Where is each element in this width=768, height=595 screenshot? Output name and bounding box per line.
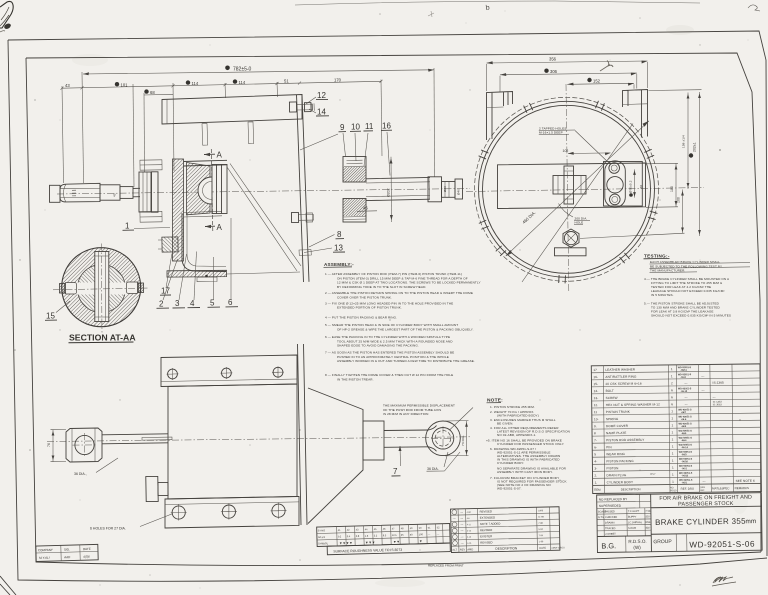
svg-text:REVISED: REVISED bbox=[480, 528, 492, 532]
rod end block bbox=[428, 177, 442, 202]
body J wall bbox=[182, 213, 226, 272]
bolt bottom bbox=[291, 212, 298, 222]
dim 76 bbox=[52, 430, 54, 462]
svg-text:73 DIA.: 73 DIA. bbox=[461, 435, 465, 446]
dome cover cone bbox=[308, 388, 363, 524]
cover end rect bbox=[363, 421, 384, 460]
svg-text:16-: 16- bbox=[593, 375, 598, 379]
svg-text:ALT: ALT bbox=[452, 548, 457, 552]
svg-text:IN THE PISTON TREAR.: IN THE PISTON TREAR. bbox=[337, 377, 374, 381]
dim 306 bbox=[500, 73, 637, 75]
specks bbox=[379, 13, 381, 15]
obround flange pocket bbox=[604, 162, 643, 207]
svg-text:BRAKE CYLINDER 355: BRAKE CYLINDER 355 bbox=[655, 517, 746, 527]
svg-text:REPLACED FROM PRINT: REPLACED FROM PRINT bbox=[428, 564, 464, 568]
svg-text:11: 11 bbox=[365, 122, 374, 131]
svg-text:AMD: AMD bbox=[467, 547, 473, 551]
centerline bottom view bbox=[47, 437, 470, 442]
svg-text:17: 17 bbox=[161, 287, 170, 296]
svg-text:COVER OVER THE PISTON TRUNK.: COVER OVER THE PISTON TRUNK. bbox=[337, 295, 392, 299]
bottom bar holes bbox=[172, 506, 185, 519]
svg-text:1008: 1008 bbox=[538, 510, 544, 512]
band across bbox=[498, 163, 646, 209]
svg-text:mm: mm bbox=[745, 518, 756, 525]
svg-text:ITEM: ITEM bbox=[594, 488, 602, 492]
svg-text:(W): (W) bbox=[633, 545, 641, 550]
svg-text:8: 8 bbox=[594, 431, 596, 435]
diagonal 460 DIA bbox=[506, 121, 649, 256]
svg-text:CHECKED: CHECKED bbox=[605, 516, 617, 519]
svg-text:36 DIA.: 36 DIA. bbox=[427, 467, 439, 471]
svg-text:-06/1: -06/1 bbox=[682, 482, 688, 484]
svg-text:114: 114 bbox=[192, 81, 199, 86]
body circle outer bbox=[479, 101, 655, 277]
svg-text:M.Y.ALI: M.Y.ALI bbox=[39, 556, 50, 560]
section centerlines bbox=[53, 288, 150, 290]
svg-text:1: 1 bbox=[671, 416, 673, 420]
svg-text:5: 5 bbox=[594, 452, 596, 456]
svg-text:B.G.: B.G. bbox=[601, 541, 616, 550]
svg-text:SUPERSEDED: SUPERSEDED bbox=[599, 504, 622, 508]
svg-text:-06/12: -06/12 bbox=[682, 475, 689, 477]
hanging tab left bbox=[202, 124, 208, 146]
svg-text:9.: 9. bbox=[594, 424, 597, 428]
svg-text:NOTE 7 ADDED: NOTE 7 ADDED bbox=[480, 522, 501, 526]
dim 356 bbox=[487, 61, 648, 63]
svg-text:15-: 15- bbox=[593, 382, 598, 386]
svg-text:102: 102 bbox=[563, 149, 569, 153]
outer dashed circle bbox=[475, 97, 659, 281]
piston trunk tube bbox=[366, 177, 430, 200]
hub bbox=[553, 176, 586, 195]
dim row 43/101/114/114/51/170 bbox=[62, 81, 381, 88]
bracket right bbox=[623, 90, 648, 138]
svg-text:4 — PUT THE PISTON PACKING & B: 4 — PUT THE PISTON PACKING & BEAR RING. bbox=[325, 316, 397, 320]
svg-text:12: 12 bbox=[317, 91, 326, 100]
svg-text:-06-6: -06-6 bbox=[681, 419, 687, 421]
piston rod bbox=[102, 434, 168, 444]
cylinder bottom wall bbox=[184, 211, 223, 217]
svg-text:TESTING:-: TESTING:- bbox=[644, 254, 670, 259]
svg-text:10-: 10- bbox=[594, 417, 599, 421]
svg-text:-06/9: -06/9 bbox=[681, 433, 687, 435]
svg-text:—: — bbox=[460, 510, 463, 514]
svg-text:▼▼: ▼▼ bbox=[393, 540, 400, 544]
svg-text:IS: 3063: IS: 3063 bbox=[713, 403, 723, 406]
svg-text:2: 2 bbox=[671, 381, 673, 385]
svg-text:2.: 2. bbox=[594, 473, 597, 477]
svg-text:ASSEMBLY WORKED IN & OUT AND T: ASSEMBLY WORKED IN & OUT AND TURNED A FE… bbox=[337, 359, 475, 363]
svg-text:CYLINDER BODY.: CYLINDER BODY. bbox=[497, 461, 524, 465]
svg-text:CYLINDER FOR PASSENGER STOCK O: CYLINDER FOR PASSENGER STOCK ONLY. bbox=[497, 442, 564, 446]
air port block bbox=[146, 476, 158, 501]
IS refs two-line bbox=[713, 401, 723, 407]
push rod neck bbox=[429, 426, 437, 452]
svg-text:14: 14 bbox=[317, 108, 326, 117]
svg-text:PIN: PIN bbox=[606, 445, 612, 449]
piston rod left bbox=[100, 185, 120, 200]
svg-text:-06/11: -06/11 bbox=[680, 370, 687, 372]
svg-text:TRACED: TRACED bbox=[605, 527, 616, 530]
svg-text:N.T.S: N.T.S bbox=[598, 516, 604, 519]
svg-text:7-94: 7-94 bbox=[645, 510, 651, 513]
right dim 180 bbox=[675, 164, 677, 208]
spring lines bbox=[227, 167, 297, 271]
flange ring bbox=[139, 172, 151, 212]
drain plug hex bbox=[563, 229, 579, 247]
svg-text:REF. DRG: REF. DRG bbox=[681, 487, 695, 491]
svg-text:40: 40 bbox=[113, 193, 117, 197]
bottom row bbox=[626, 534, 687, 552]
gland nut bbox=[162, 237, 178, 252]
svg-text:100: 100 bbox=[677, 197, 681, 203]
vertical plate bbox=[298, 344, 308, 525]
flange stud top bbox=[140, 160, 162, 170]
hanging tab right bbox=[248, 122, 254, 144]
right dim 158 bbox=[687, 93, 689, 190]
svg-text:8: 8 bbox=[337, 230, 342, 239]
svg-text:S.RAM: S.RAM bbox=[628, 527, 636, 530]
parts header row bbox=[594, 486, 749, 493]
bottom flange hatched bbox=[167, 270, 227, 277]
note text bbox=[486, 405, 570, 491]
pin clear pockets bbox=[65, 283, 77, 295]
svg-text:6: 6 bbox=[228, 298, 233, 307]
parts table bbox=[591, 364, 761, 494]
svg-text:(WITH FABRICATED BODY): (WITH FABRICATED BODY) bbox=[497, 414, 539, 418]
cylinder top wall bbox=[184, 160, 228, 166]
leaders 17,2-6 bbox=[163, 218, 231, 300]
svg-text:SY-NO: SY-NO bbox=[318, 529, 326, 532]
bolt circle tick marks bbox=[479, 101, 658, 284]
svg-text:782±5-0: 782±5-0 bbox=[233, 67, 252, 73]
svg-text:51: 51 bbox=[284, 79, 289, 84]
svg-text:1: 1 bbox=[671, 409, 673, 413]
dim 782±5-0 bbox=[83, 70, 434, 74]
svg-text:4: 4 bbox=[190, 299, 195, 308]
svg-text:—: — bbox=[453, 516, 456, 520]
svg-text:158 ±1/4: 158 ±1/4 bbox=[682, 135, 686, 148]
complied handwriting bbox=[712, 577, 736, 586]
svg-text:Ø20: Ø20 bbox=[443, 186, 447, 192]
svg-text:-06/10: -06/10 bbox=[681, 461, 688, 463]
svg-text:BUPPY: BUPPY bbox=[628, 516, 637, 519]
pin dashes bbox=[72, 190, 76, 196]
svg-text:RA µm: RA µm bbox=[318, 536, 325, 539]
svg-text:202±1: 202±1 bbox=[693, 142, 697, 152]
svg-text:13: 13 bbox=[334, 244, 343, 253]
svg-text:—: — bbox=[461, 535, 464, 539]
svg-text:Ø40: Ø40 bbox=[457, 189, 461, 195]
svg-text:WD-92051-S-06: WD-92051-S-06 bbox=[689, 540, 755, 550]
svg-text:12.: 12. bbox=[594, 403, 599, 407]
svg-text:5: 5 bbox=[210, 299, 215, 308]
eye outer bbox=[426, 421, 461, 456]
svg-text:T.C.GUPT: T.C.GUPT bbox=[628, 510, 640, 513]
svg-text:NO REPLACED BY: NO REPLACED BY bbox=[599, 497, 628, 501]
svg-text:36 DIA.,: 36 DIA., bbox=[74, 472, 87, 476]
dome cover ring upper bbox=[343, 157, 366, 183]
svg-text:WEAR RING: WEAR RING bbox=[606, 452, 625, 456]
body rect bbox=[168, 384, 297, 499]
svg-text:PISTON ROD ASSEMBLY: PISTON ROD ASSEMBLY bbox=[606, 438, 644, 442]
svg-text:43: 43 bbox=[65, 83, 70, 88]
svg-text:HEX NUT & SPRING WASHER M-12: HEX NUT & SPRING WASHER M-12 bbox=[606, 402, 660, 407]
svg-text:68: 68 bbox=[150, 90, 155, 95]
svg-text:7-: 7- bbox=[594, 438, 597, 442]
svg-text:OF HP-2 GREASE & WIPE THE LARG: OF HP-2 GREASE & WIPE THE LARGEST PART O… bbox=[337, 327, 474, 331]
clevis jaw bbox=[60, 183, 100, 202]
svg-text:-06/3: -06/3 bbox=[681, 454, 687, 456]
rod end cap bbox=[50, 185, 61, 202]
svg-text:6 HOLES FOR 27 DIA.: 6 HOLES FOR 27 DIA. bbox=[90, 527, 126, 531]
svg-text:IS:1365: IS:1365 bbox=[712, 381, 724, 385]
svg-text:BOLT: BOLT bbox=[606, 389, 614, 393]
svg-text:1: 1 bbox=[672, 466, 674, 470]
svg-text:WD-92051-S-07.: WD-92051-S-07. bbox=[497, 487, 522, 491]
svg-text:DATE: DATE bbox=[539, 546, 546, 550]
section circle outer hatched bbox=[62, 248, 141, 327]
svg-text:▼: ▼ bbox=[419, 539, 422, 543]
svg-text:▼▼▼: ▼▼▼ bbox=[365, 540, 375, 544]
extension lines bbox=[62, 68, 435, 187]
svg-text:-06-8: -06-8 bbox=[680, 377, 686, 379]
svg-text:1: 1 bbox=[672, 430, 674, 434]
svg-text:1: 1 bbox=[672, 473, 674, 477]
svg-text:1: 1 bbox=[672, 480, 674, 484]
body circle inner bbox=[483, 105, 651, 273]
svg-text:SCREW: SCREW bbox=[606, 396, 618, 400]
svg-text:ANTIRATTLER RING: ANTIRATTLER RING bbox=[605, 375, 637, 379]
svg-text:SECTION AT-AA: SECTION AT-AA bbox=[69, 333, 136, 343]
paper corner curl top-left bbox=[0, 1, 13, 28]
svg-text:LEATHER WASHER: LEATHER WASHER bbox=[605, 367, 635, 371]
svg-text:PISTON PACKING: PISTON PACKING bbox=[606, 459, 634, 463]
svg-text:356: 356 bbox=[549, 56, 557, 61]
svg-text:-06-13: -06-13 bbox=[681, 391, 688, 393]
svg-text:BY DEFORMING TODE IN TO THE SL: BY DEFORMING TODE IN TO THE SLOT IN SCRE… bbox=[337, 285, 426, 289]
section A-A line bbox=[211, 149, 213, 232]
svg-text:76: 76 bbox=[47, 443, 51, 447]
flange top hole bbox=[609, 163, 620, 174]
svg-text:SEE NOTE 6: SEE NOTE 6 bbox=[736, 479, 755, 483]
svg-text:1: 1 bbox=[671, 367, 673, 371]
svg-text:REF: REF bbox=[700, 490, 705, 492]
mounting plate bbox=[297, 95, 304, 283]
dome cover ring lower bbox=[343, 199, 366, 223]
svg-text:306: 306 bbox=[550, 69, 558, 74]
svg-text:1: 1 bbox=[672, 459, 674, 463]
svg-text:1.: 1. bbox=[595, 481, 598, 485]
assembly text bbox=[325, 272, 481, 381]
svg-text:6: 6 bbox=[671, 388, 673, 392]
svg-text:ASSEMBLY:-: ASSEMBLY:- bbox=[324, 262, 354, 267]
svg-text:BE GIVEN.: BE GIVEN. bbox=[497, 422, 513, 426]
svg-text:—: — bbox=[461, 541, 464, 545]
parts table column lines bbox=[603, 364, 733, 493]
svg-text:114: 114 bbox=[239, 80, 246, 85]
svg-text:PASSED: PASSED bbox=[605, 510, 615, 513]
svg-text:EXISTED: EXISTED bbox=[480, 534, 492, 538]
svg-text:DATE: DATE bbox=[83, 547, 91, 551]
top flange bar bbox=[162, 95, 302, 125]
sign grid bbox=[597, 513, 651, 536]
top flange bar bbox=[161, 355, 297, 387]
flange bottom hole bbox=[610, 194, 621, 205]
svg-text:46: 46 bbox=[363, 206, 368, 211]
svg-text:170: 170 bbox=[334, 77, 342, 82]
svg-text:-06-14: -06-14 bbox=[681, 446, 688, 449]
svg-text:REVISED: REVISED bbox=[480, 540, 492, 544]
svg-text:20 CSK SCREW M 6×16: 20 CSK SCREW M 6×16 bbox=[605, 382, 641, 386]
svg-text:180: 180 bbox=[670, 186, 674, 192]
svg-text:DESCRIPTION: DESCRIPTION bbox=[495, 546, 518, 550]
leader 9 long bbox=[300, 134, 338, 150]
svg-text:14-: 14- bbox=[594, 389, 599, 393]
svg-text:M-16×1.5 DEEP: M-16×1.5 DEEP bbox=[539, 131, 563, 135]
dim 68 bbox=[144, 93, 173, 96]
svg-text:17: 17 bbox=[593, 368, 597, 372]
svg-text:R.D.S.O.: R.D.S.O. bbox=[628, 539, 646, 544]
svg-text:SPRING: SPRING bbox=[606, 417, 619, 421]
title block bbox=[597, 493, 762, 553]
svg-text:2-SHEET: 2-SHEET bbox=[605, 533, 616, 536]
svg-text:REQD: REQD bbox=[670, 490, 677, 492]
svg-text:CYLINDER BODY: CYLINDER BODY bbox=[607, 480, 634, 484]
svg-text:A: A bbox=[217, 151, 223, 160]
svg-text:9: 9 bbox=[340, 123, 345, 132]
svg-text:EXTENDED: EXTENDED bbox=[480, 515, 495, 519]
svg-text:NO 02-ABR, APPENDIX-1.: NO 02-ABR, APPENDIX-1. bbox=[497, 433, 536, 437]
svg-text:REMARKS: REMARKS bbox=[735, 486, 749, 490]
top-right curl glyph bbox=[748, 5, 760, 11]
flange stud bottom bbox=[140, 211, 162, 222]
svg-text:-06/4: -06/4 bbox=[681, 439, 687, 442]
svg-text:4|7|6: 4|7|6 bbox=[83, 555, 90, 559]
svg-text:PISTON: PISTON bbox=[606, 466, 618, 470]
pencil mark bbox=[600, 61, 613, 72]
svg-text:16: 16 bbox=[382, 122, 391, 131]
svg-text:15: 15 bbox=[46, 312, 55, 321]
dim 73 bbox=[466, 421, 468, 456]
parts table row lines bbox=[591, 371, 761, 486]
svg-text:DRG: DRG bbox=[700, 487, 705, 489]
svg-text:AMDT-DRGS: AMDT-DRGS bbox=[551, 546, 565, 549]
svg-text:NAME PLATE: NAME PLATE bbox=[606, 431, 626, 435]
svg-text:AAD: AAD bbox=[63, 555, 71, 559]
dim vertical 202 bbox=[390, 157, 393, 222]
diagonal 2 bbox=[522, 124, 633, 283]
svg-text:3: 3 bbox=[175, 299, 180, 308]
leaders 9-16 bbox=[343, 132, 390, 176]
svg-text:2: 2 bbox=[159, 300, 164, 309]
svg-text:1· PISTON STROKE 255 M/M.: 1· PISTON STROKE 255 M/M. bbox=[490, 405, 535, 409]
inner hatch bbox=[78, 265, 125, 312]
svg-text:12.5: 12.5 bbox=[392, 534, 397, 537]
svg-text:—: — bbox=[460, 516, 463, 520]
bolt 12/14 top bbox=[289, 102, 296, 112]
svg-text:PISTON TRUNK: PISTON TRUNK bbox=[606, 410, 631, 414]
svg-text:Ø202: Ø202 bbox=[387, 188, 391, 197]
svg-text:A: A bbox=[217, 223, 223, 232]
svg-text:101: 101 bbox=[121, 82, 129, 87]
svg-text:—: — bbox=[460, 529, 463, 533]
piston dome bbox=[198, 177, 212, 204]
roughness table bbox=[317, 524, 451, 555]
top bar holes bbox=[168, 369, 178, 379]
svg-text:DRAWN: DRAWN bbox=[605, 521, 615, 524]
svg-text:R½": R½" bbox=[650, 472, 655, 476]
svg-text:1: 1 bbox=[671, 374, 673, 378]
svg-text:10: 10 bbox=[351, 123, 360, 132]
svg-text:SHOULD NOT EXCEED 0.035 KG/CM²: SHOULD NOT EXCEED 0.035 KG/CM² IN 5 MINU… bbox=[651, 314, 731, 318]
parts rows text bbox=[593, 366, 755, 484]
svg-text:1: 1 bbox=[671, 423, 673, 427]
follower plate bbox=[212, 165, 227, 214]
svg-text:152: 152 bbox=[593, 79, 601, 84]
svg-text:3-: 3- bbox=[594, 466, 597, 470]
svg-text:GROUP: GROUP bbox=[653, 539, 672, 545]
testing text bbox=[644, 260, 731, 318]
svg-text:SHAPED EDGE TO AVOID DAMAGING: SHAPED EDGE TO AVOID DAMAGING THE PACKIN… bbox=[337, 344, 419, 348]
svg-text:NO.: NO. bbox=[670, 487, 674, 489]
svg-text:1: 1 bbox=[672, 451, 674, 455]
svg-text:DOME COVER: DOME COVER bbox=[606, 424, 629, 428]
paper corner bottom-left bbox=[0, 576, 16, 595]
svg-text:7: 7 bbox=[393, 467, 398, 476]
svg-text:SIG.: SIG. bbox=[64, 547, 70, 551]
dim 152 bbox=[567, 83, 634, 84]
svg-text:—: — bbox=[460, 522, 463, 526]
dim inside flange bbox=[634, 169, 636, 197]
piston wedge hatched bbox=[187, 163, 211, 215]
right dim 202 bbox=[699, 92, 701, 236]
svg-text:IN 5 MINUTES.: IN 5 MINUTES. bbox=[651, 293, 674, 297]
svg-text:REVISED: REVISED bbox=[480, 509, 492, 513]
paper top edge bbox=[295, 1, 700, 5]
svg-text:11: 11 bbox=[594, 410, 598, 414]
name plate bbox=[555, 248, 587, 256]
pin ears bbox=[60, 284, 66, 294]
svg-text:6-: 6- bbox=[594, 445, 597, 449]
front head hatched bbox=[173, 159, 184, 261]
dim 46 bbox=[357, 210, 377, 213]
flange center hole bbox=[607, 177, 623, 193]
svg-text:-06/5: -06/5 bbox=[681, 426, 687, 428]
company table bbox=[36, 544, 98, 561]
bottom flange bar bbox=[165, 496, 299, 528]
svg-text:-06/7: -06/7 bbox=[681, 412, 687, 414]
svg-text:ASSEMBLY WITH CAST IRON BODY.: ASSEMBLY WITH CAST IRON BODY. bbox=[497, 470, 553, 474]
clevis block bbox=[66, 428, 102, 462]
svg-text:HOLE: HOLE bbox=[575, 221, 584, 225]
ref drg cells dark text bbox=[678, 367, 693, 484]
vertical rod bar bbox=[95, 252, 109, 322]
svg-text:▼▼▼▼: ▼▼▼▼ bbox=[339, 541, 353, 545]
svg-text:66: 66 bbox=[639, 185, 643, 189]
svg-text:SYMBOL: SYMBOL bbox=[318, 542, 329, 545]
svg-text:-06-2: -06-2 bbox=[681, 468, 687, 470]
eye inner dashed bbox=[435, 431, 451, 447]
svg-text:1: 1 bbox=[672, 444, 674, 448]
push rod bbox=[384, 430, 429, 447]
A top bbox=[204, 153, 215, 155]
svg-text:REV: REV bbox=[460, 547, 466, 551]
svg-text:Ø70±0.2: Ø70±0.2 bbox=[629, 180, 633, 193]
svg-text:COMPANY: COMPANY bbox=[38, 548, 53, 552]
testing underlines bbox=[650, 263, 751, 273]
revision table bbox=[451, 507, 566, 553]
